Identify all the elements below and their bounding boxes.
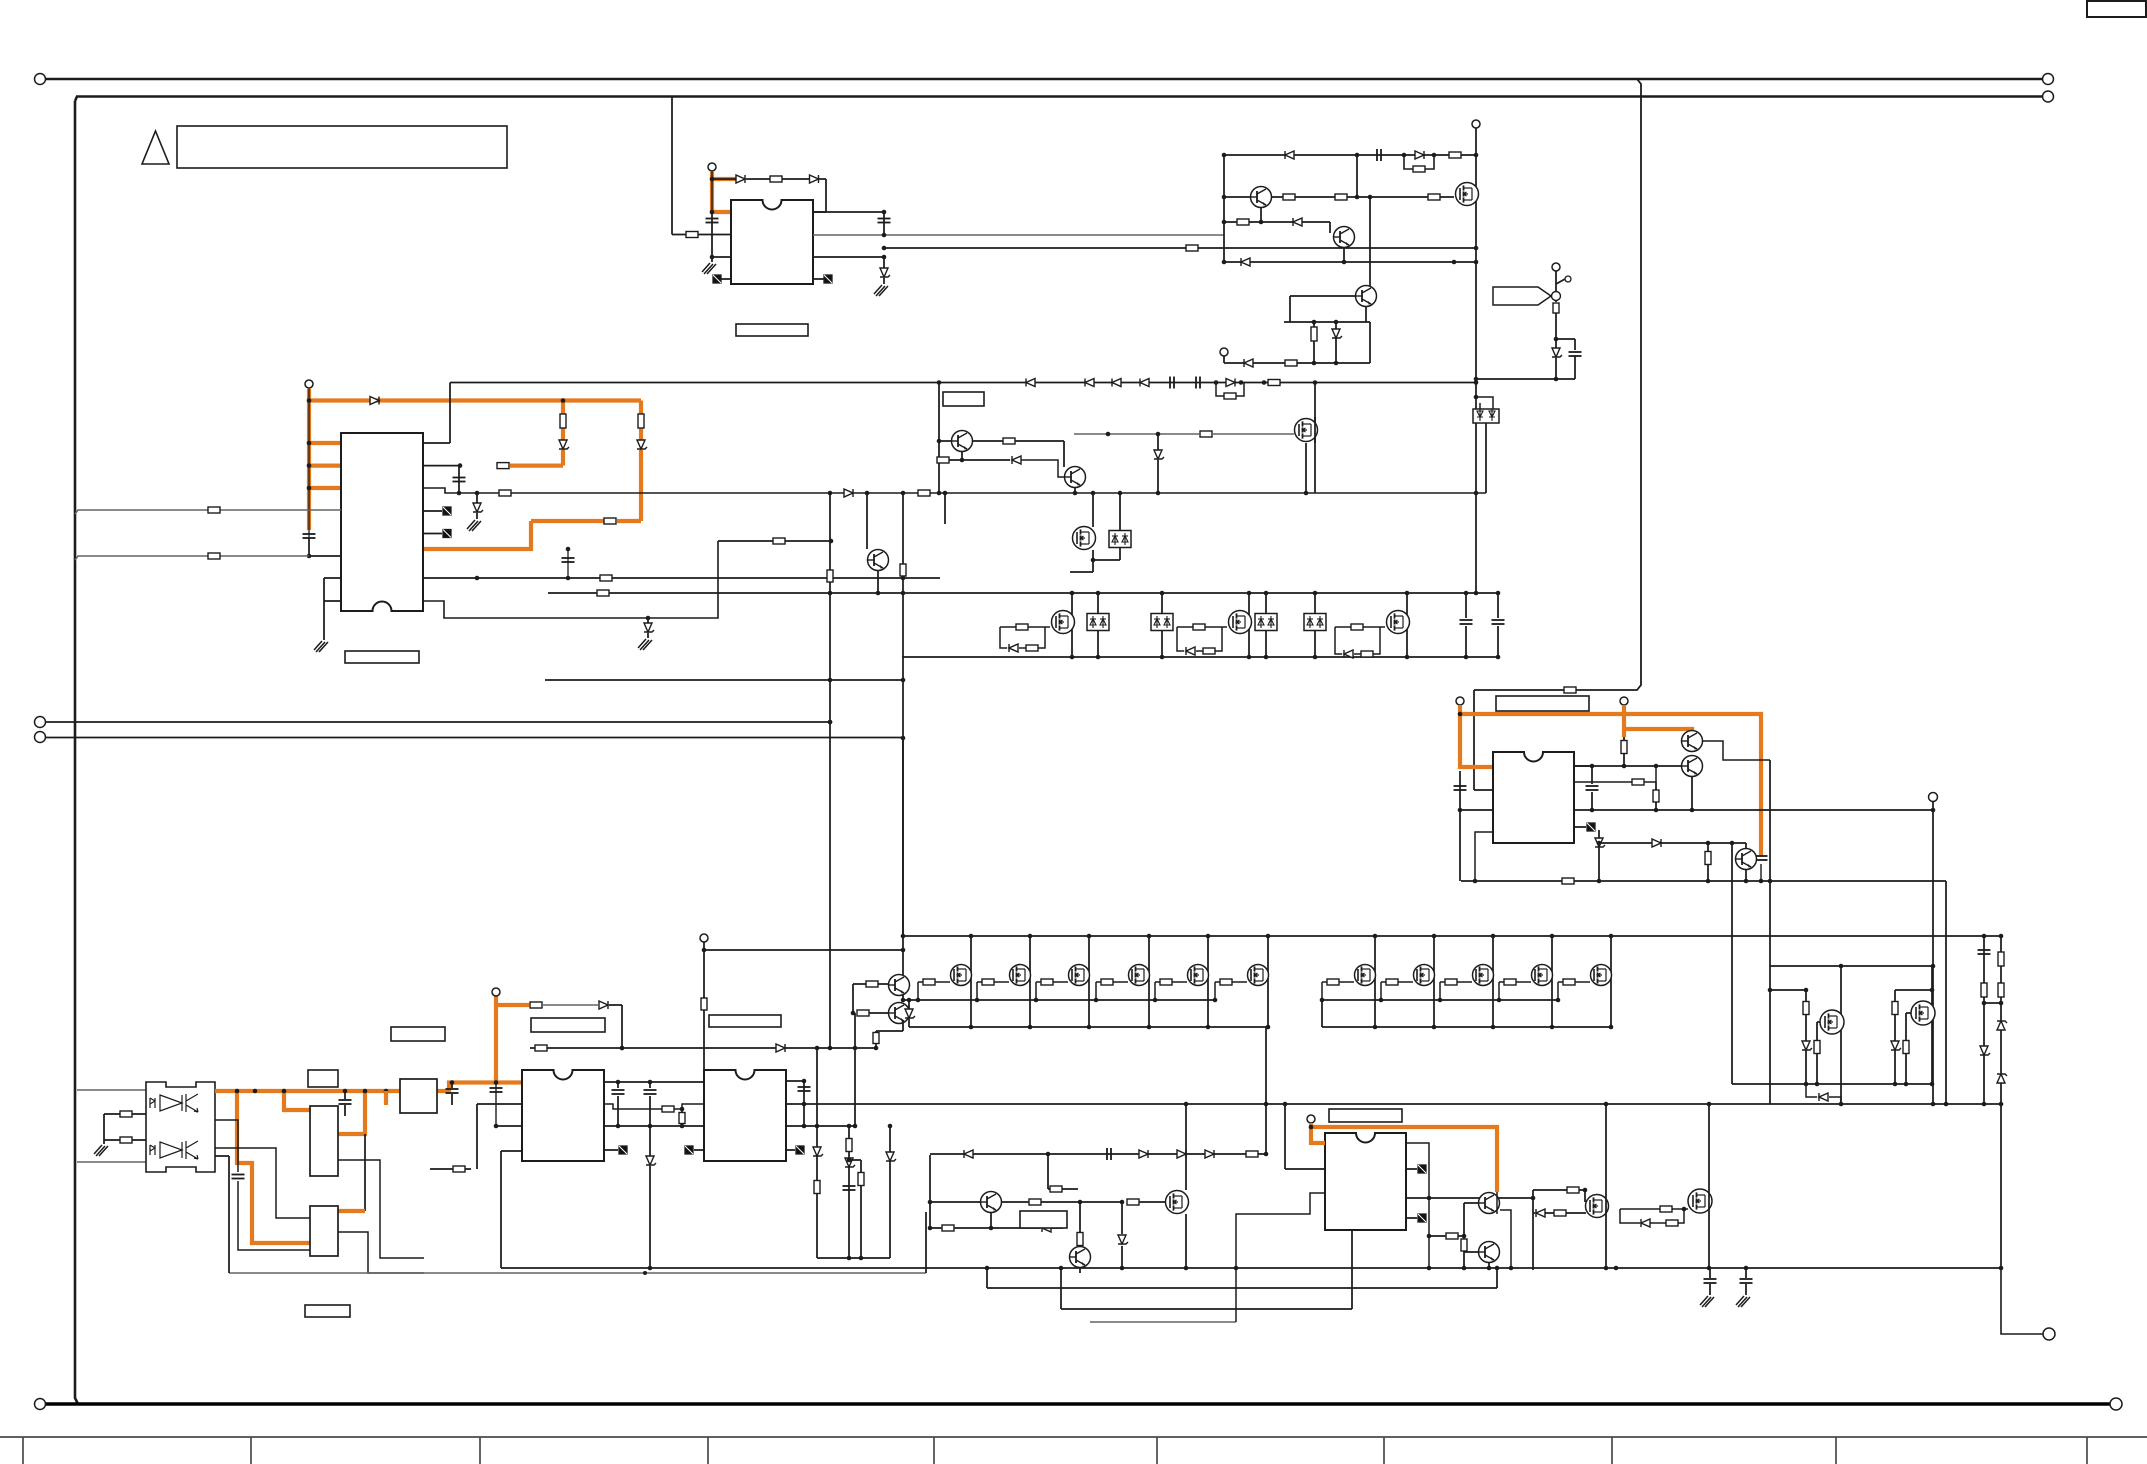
node N214 <box>1531 1196 1536 1201</box>
wire <box>1356 155 1358 197</box>
wire column Q <box>2000 936 2002 1268</box>
node N143 <box>1999 1001 2004 1006</box>
node N125 <box>1153 998 1158 1003</box>
wire <box>990 1213 992 1228</box>
zener diode D26 <box>905 1009 915 1018</box>
wire net-1202 <box>930 1201 980 1203</box>
zener diode D36 <box>646 1156 656 1165</box>
wire U1 out1 <box>813 211 884 213</box>
node N58 <box>828 720 833 725</box>
wire U2 out1 <box>423 442 450 444</box>
capacitor C21 <box>843 1186 856 1190</box>
node N98 <box>901 948 906 953</box>
wire diode hook <box>1806 1084 1841 1104</box>
node N213 <box>1427 1266 1432 1271</box>
wire Q33 base <box>1464 1202 1478 1204</box>
capacitor C19 <box>644 1090 657 1094</box>
wire <box>1119 493 1121 531</box>
wire U2 out3 <box>423 488 1486 493</box>
node N13 <box>1474 153 1479 158</box>
diode pack D11 (dual zener) <box>1473 409 1499 423</box>
node N136 <box>874 1046 879 1051</box>
node N122 <box>975 998 980 1003</box>
wire <box>1598 830 1600 881</box>
node N75 <box>1160 591 1165 596</box>
terminal T11 <box>2043 1328 2055 1340</box>
wire <box>344 1091 346 1099</box>
node on trunk <box>282 1089 287 1094</box>
node N154 <box>1590 808 1595 813</box>
no-connect pin X7 <box>685 1146 693 1154</box>
wire <box>649 1126 651 1156</box>
wire D2 to U1 <box>825 179 827 212</box>
zener diode D28 <box>1980 1046 1990 1055</box>
wire rail row1 top <box>903 935 2001 937</box>
wire Q15 column <box>1088 936 1090 1027</box>
node N110 <box>1266 1025 1271 1030</box>
wire <box>649 1166 651 1268</box>
diode D35 <box>1819 1093 1828 1101</box>
node N116 <box>1491 1025 1496 1030</box>
node N144 <box>1999 1102 2004 1107</box>
node N83 <box>1496 591 1501 596</box>
node N178 <box>648 1080 653 1085</box>
wire diode pack bottom <box>1097 631 1099 658</box>
node N220 <box>1604 1102 1609 1107</box>
resistor R3 <box>1186 245 1198 251</box>
node N52 <box>646 616 651 621</box>
node N138 <box>815 1046 820 1051</box>
wire vertical V7 <box>1932 810 1934 1104</box>
resistor R18 <box>1224 393 1236 399</box>
node N126 <box>1213 998 1218 1003</box>
node N9 <box>1222 153 1227 158</box>
node N208 <box>1309 1125 1314 1130</box>
wire Q10 column <box>1314 417 1316 443</box>
wire U2 pin8a <box>324 600 341 602</box>
wire <box>986 1268 988 1288</box>
optocoupler U3b <box>150 1141 198 1159</box>
wire U1 out3 <box>813 256 884 258</box>
resistor R7 <box>1335 194 1347 200</box>
zener diode D30 <box>1997 1074 2007 1083</box>
node on trunk <box>494 1080 499 1085</box>
resistor R24 <box>918 490 930 496</box>
node N7 <box>1474 246 1479 251</box>
node N219 <box>1583 1188 1588 1193</box>
zener diode D38 <box>845 1158 855 1167</box>
transistor Q29 (MOSFET) <box>1911 1001 1935 1025</box>
wire <box>1139 1201 1166 1203</box>
wire <box>1048 1188 1050 1190</box>
wire <box>639 450 643 521</box>
wire Q4 emitter <box>1365 307 1367 322</box>
zener diode D20 <box>473 503 483 512</box>
wire C2 <box>883 212 885 235</box>
node N73 <box>1096 591 1101 596</box>
node N8 <box>882 255 887 260</box>
wire net-1155 <box>930 1153 1266 1155</box>
node N118 <box>1550 1025 1555 1030</box>
wire vertical V8 <box>1945 881 1947 1104</box>
node N23 <box>1312 320 1317 325</box>
wire <box>1905 1013 1907 1084</box>
capacitor C15 <box>339 1100 352 1104</box>
resistor R-h11 <box>1563 979 1575 985</box>
wire <box>908 1000 910 1027</box>
wire hook <box>1476 397 1493 409</box>
wire <box>1745 870 1747 882</box>
zener diode D29 <box>1997 1021 2007 1030</box>
wire MB column <box>1931 966 1933 1084</box>
bottom table tick <box>1611 1437 1613 1464</box>
transistor Q21 (MOSFET row1) <box>1473 965 1494 986</box>
wire <box>878 983 889 985</box>
wire highlighted U8 supply <box>1311 1127 1497 1192</box>
wire rail row1 bottom left <box>909 1026 1268 1028</box>
wire Q5 emitter <box>877 571 879 594</box>
resistor R58 <box>1077 1233 1083 1246</box>
wire resistor loop <box>1404 155 1434 169</box>
resistor R35 <box>1998 952 2004 966</box>
resistor R33 <box>535 1045 547 1051</box>
terminal T12 <box>700 934 708 942</box>
node on trunk <box>363 1089 368 1094</box>
wire <box>430 1168 471 1170</box>
wire highlighted branch2 <box>284 1091 310 1110</box>
node N135 <box>853 1046 858 1051</box>
resistor R19 <box>1268 380 1280 386</box>
wire <box>621 1005 623 1048</box>
zener diode D37 <box>813 1147 823 1156</box>
node N119 <box>1609 934 1614 939</box>
transistor Q15 (MOSFET row1) <box>1069 965 1090 986</box>
wire highlighted trunk left <box>215 1089 400 1093</box>
wire diode pack top <box>1097 593 1099 614</box>
wire <box>929 1155 931 1228</box>
diode D45 <box>599 1001 608 1009</box>
resistor R4 <box>1413 166 1425 172</box>
node N193 <box>853 1124 858 1129</box>
transistor Q32 (BJT) <box>1070 1247 1091 1268</box>
diode D22 <box>844 489 853 497</box>
wire <box>849 1159 861 1161</box>
node N142 <box>1982 1001 1987 1006</box>
wire rail row2 top <box>548 592 1498 594</box>
zener diode inside D11 <box>1477 409 1483 421</box>
wire <box>1545 1212 1554 1214</box>
wire bank1 feed <box>902 738 904 1000</box>
wire <box>854 1013 856 1048</box>
wire <box>853 983 866 985</box>
node N87 <box>1118 491 1123 496</box>
resistor R-h6 <box>1220 979 1232 985</box>
wire gate bus row1 right <box>1322 999 1558 1001</box>
frame corner circle top-right-1 <box>2043 74 2054 85</box>
wire tie <box>1984 1002 2001 1004</box>
node N62 <box>865 491 870 496</box>
wire Q3 emitter <box>1343 248 1345 262</box>
node N74 <box>1096 655 1101 660</box>
ground D21 <box>638 639 652 650</box>
resistor R37 <box>1621 741 1627 754</box>
wire net-434 <box>1074 433 1200 435</box>
diode D-g2 <box>1186 647 1195 655</box>
ground D3 <box>874 285 888 296</box>
node N222 <box>1682 1207 1687 1212</box>
wire border to opto B <box>77 1161 146 1163</box>
frame corner circle bottom-right <box>2110 1398 2122 1410</box>
wire column P <box>1983 936 1985 1104</box>
node N96 <box>901 934 906 939</box>
node N28 <box>1474 377 1479 382</box>
wire <box>819 178 826 180</box>
node N157 <box>1597 841 1602 846</box>
wire <box>1745 1284 1747 1295</box>
wire <box>875 1031 877 1033</box>
node N29 <box>1554 377 1559 382</box>
wire gate <box>1096 982 1128 1000</box>
wire <box>1496 1268 1498 1288</box>
terminal T10 <box>1307 1115 1315 1123</box>
zener diode D33 <box>1802 1041 1812 1050</box>
wire gate loop 1 <box>1000 627 1050 648</box>
wire R2 to U1 pin2 <box>698 234 731 236</box>
wire <box>1092 550 1094 572</box>
diode D5 <box>1415 151 1424 159</box>
wire <box>1157 460 1159 493</box>
node N72 <box>1405 655 1410 660</box>
node N93 <box>937 439 942 444</box>
wire rail V2 <box>1223 155 1225 262</box>
wire <box>1463 1203 1465 1236</box>
wire <box>1121 1246 1123 1268</box>
wire <box>308 538 310 556</box>
node N51 <box>829 539 834 544</box>
diode D42 <box>1042 1224 1051 1232</box>
wire <box>803 1081 805 1126</box>
terminal T9 <box>492 988 500 996</box>
wire net-155 <box>1224 154 1476 156</box>
node N145 <box>1982 1102 1987 1107</box>
wire gate loop 3 <box>1335 627 1385 654</box>
node N108 <box>1206 1025 1211 1030</box>
resistor R14 <box>638 414 644 428</box>
wire <box>1459 771 1461 881</box>
wire <box>1555 358 1557 379</box>
transistor Q4 (BJT) <box>1356 286 1377 307</box>
zener diode D34 <box>1891 1041 1901 1050</box>
node N147 <box>1458 808 1463 813</box>
wire Q34 base <box>1464 1251 1478 1253</box>
wire <box>567 549 569 578</box>
wire <box>1265 1027 1267 1154</box>
wire Q24 emitter <box>902 1021 904 1031</box>
node N49 <box>829 576 834 581</box>
resistor R32 <box>873 1033 879 1044</box>
wire vertical V6 <box>1769 760 1771 1104</box>
label box U1 <box>736 324 808 336</box>
node N3 <box>710 255 715 260</box>
wire <box>1093 559 1120 561</box>
node N202 <box>1120 1200 1125 1205</box>
diode D7 <box>1241 258 1250 266</box>
node N55 <box>828 491 833 496</box>
node N211 <box>1427 1196 1432 1201</box>
bottom table tick <box>22 1437 24 1464</box>
wire U1 pin3 <box>712 256 731 258</box>
node N188 <box>847 1124 852 1129</box>
resistor R10 <box>1311 327 1317 341</box>
wire cap <box>1497 593 1499 618</box>
transistor Q20 (MOSFET row1) <box>1414 965 1435 986</box>
capacitor C13 <box>1755 856 1768 860</box>
resistor R60 <box>1446 1233 1458 1239</box>
node N155 <box>1931 808 1936 813</box>
node N164 <box>1839 964 1844 969</box>
wire net-197 <box>1224 196 1250 198</box>
warning triangle <box>142 131 169 164</box>
wire diode pack bottom <box>1161 631 1163 658</box>
node N91 <box>1156 491 1161 496</box>
node N1 <box>710 177 715 182</box>
wire net-1104 long <box>786 1103 2001 1105</box>
transistor Q25 (BJT) <box>1682 731 1703 752</box>
node N32 <box>307 398 312 403</box>
resistor R48 <box>530 1002 542 1008</box>
IC U2 <box>341 433 423 611</box>
node N181 <box>680 1107 685 1112</box>
node N89 <box>1106 432 1111 437</box>
wire net-843 <box>1599 842 1746 844</box>
frame top line 2 (border top edge) <box>75 97 2042 102</box>
node N167 <box>1768 988 1773 993</box>
node N105 <box>1147 934 1152 939</box>
node N15 <box>1355 195 1360 200</box>
node N65 <box>876 591 881 596</box>
wire cap branch <box>1556 338 1575 340</box>
wire <box>1579 1189 1585 1191</box>
node N195 <box>985 1266 990 1271</box>
resistor R59 <box>942 1225 954 1231</box>
wire <box>1584 1190 1586 1202</box>
wire U8 pin3 <box>1236 1193 1325 1322</box>
resistor R22 <box>600 575 612 581</box>
diode D19 <box>1226 379 1235 387</box>
wire diode pack top <box>1265 593 1267 614</box>
capacitor C23 <box>1704 1279 1717 1283</box>
diode D1 <box>736 175 745 183</box>
node N69 <box>1247 591 1252 596</box>
label box Q30 <box>1020 1211 1067 1228</box>
node N45 <box>457 491 462 496</box>
resistor R57 <box>1127 1199 1139 1205</box>
wire <box>1496 1192 1498 1214</box>
wire gate <box>1215 982 1247 1000</box>
node N205 <box>1120 1266 1125 1271</box>
node N95 <box>1073 491 1078 496</box>
node on trunk <box>343 1089 348 1094</box>
no-connect pin X5 <box>1587 823 1595 831</box>
resistor R-g1b <box>1026 645 1038 651</box>
node N163 <box>1744 879 1749 884</box>
wire <box>649 1082 651 1088</box>
thermal fuse F1 <box>1493 287 1551 305</box>
wire U8 pin2 <box>1285 1168 1325 1170</box>
node N57 <box>901 736 906 741</box>
wire <box>1041 1201 1121 1203</box>
resistor R51 <box>679 1113 685 1124</box>
diode pack D3 <box>1255 614 1277 631</box>
resistor R11 <box>1285 360 1297 366</box>
node N161 <box>1706 841 1711 846</box>
wire <box>1707 843 1709 852</box>
wire <box>1770 989 1806 991</box>
capacitor C3 <box>1377 149 1381 161</box>
resistor R16 <box>208 507 220 513</box>
node N129 <box>1438 998 1443 1003</box>
resistor R50 <box>662 1106 674 1112</box>
wire net-379 <box>1476 378 1575 380</box>
terminal T7 <box>1620 697 1628 705</box>
wire <box>1463 1236 1465 1239</box>
transistor Q2 (MOSFET) <box>1456 183 1479 206</box>
node N139 <box>620 1046 625 1051</box>
node N59 <box>937 491 942 496</box>
capacitor C8 <box>453 478 466 482</box>
wire U5 pin4 <box>1475 832 1493 881</box>
wire gate <box>977 982 1009 1000</box>
transistor Q19 (MOSFET row1) <box>1355 965 1376 986</box>
node N24 <box>1334 320 1339 325</box>
node N109 <box>1266 934 1271 939</box>
wire <box>1212 433 1294 435</box>
node N34 <box>307 463 312 468</box>
wire net-460 <box>939 459 1010 461</box>
resistor R9 <box>1237 219 1249 225</box>
node N46 <box>475 491 480 496</box>
node N6 <box>882 246 887 251</box>
resistor R13 <box>560 414 566 428</box>
resistor R54 <box>858 1173 864 1186</box>
resistor R29 <box>937 457 949 463</box>
node N102 <box>1028 1025 1033 1030</box>
capacitor C10 <box>1978 950 1991 954</box>
wire Q16 column <box>1148 936 1150 1027</box>
wire U5 pin3 <box>1461 809 1493 811</box>
node N159 <box>1768 879 1773 884</box>
warning text box <box>177 126 507 168</box>
capacitor C6 <box>1170 377 1174 389</box>
transistor Q24 (BJT) <box>889 1003 910 1024</box>
wire net-966 <box>1770 965 1933 967</box>
wire net-950 <box>704 949 903 951</box>
wire column R <box>816 1048 818 1258</box>
wire D11 to net-493 <box>1485 423 1487 493</box>
wire <box>647 633 649 638</box>
diode D46 <box>1139 1150 1148 1158</box>
wire column S <box>848 1126 850 1258</box>
node N149 <box>1622 764 1627 769</box>
wire <box>647 618 649 623</box>
node N197 <box>1059 1266 1064 1271</box>
wire diode pack bottom <box>1265 631 1267 658</box>
wire Q31 source <box>1185 1214 1187 1268</box>
resistor R36 <box>1998 983 2004 997</box>
node N26 <box>1334 361 1339 366</box>
wire Q11 emitter <box>961 452 963 461</box>
wire gate <box>1381 982 1413 1000</box>
